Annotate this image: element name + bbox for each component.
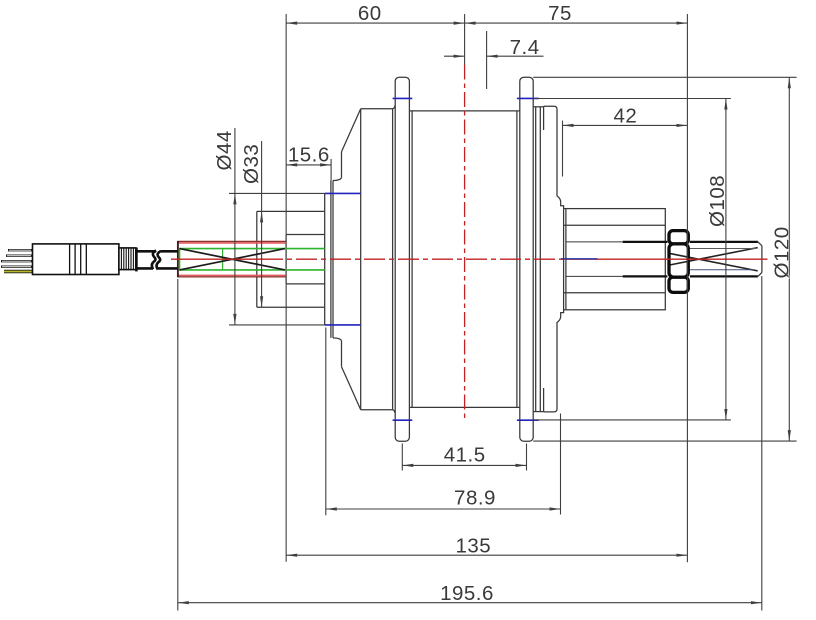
cable with break xyxy=(136,248,177,272)
connector nose ribs xyxy=(121,248,133,270)
dimension 7.4 xyxy=(444,31,544,89)
left cover disc edge xyxy=(361,106,395,413)
dimension 15.6 xyxy=(286,159,331,181)
horizontal centerline xyxy=(171,258,768,260)
axle boss D33 xyxy=(257,211,325,307)
centerline blue overlay xyxy=(561,258,598,260)
left axle thread highlight red xyxy=(178,241,286,277)
svg-text:60: 60 xyxy=(358,2,382,25)
svg-text:78.9: 78.9 xyxy=(454,487,496,510)
dimension 41.5 xyxy=(402,444,526,471)
left axle thread cross xyxy=(180,249,285,270)
right axle thread major lines xyxy=(623,242,758,277)
dimension D108 xyxy=(534,99,731,420)
dimension D44 xyxy=(229,128,325,325)
svg-text:75: 75 xyxy=(548,2,572,25)
dimension D33 xyxy=(261,141,263,307)
left axle thread minor green xyxy=(179,249,325,270)
svg-text:Ø120: Ø120 xyxy=(771,226,794,278)
connector nose xyxy=(119,248,136,270)
dimension 78.9 xyxy=(326,328,561,516)
svg-text:Ø44: Ø44 xyxy=(213,130,236,170)
vertical centerline xyxy=(464,65,466,421)
dimension 195.6 xyxy=(178,276,762,611)
dimension 135 xyxy=(286,554,687,556)
svg-text:135: 135 xyxy=(455,534,491,557)
right axle thread cross xyxy=(669,248,758,271)
svg-text:42: 42 xyxy=(613,105,637,128)
wire leads xyxy=(1,250,33,273)
right cover xyxy=(533,106,563,412)
axle nut fill xyxy=(667,229,690,294)
axle nut M12 xyxy=(669,231,688,293)
left spoke flange disc xyxy=(393,77,413,441)
left cover cone xyxy=(333,109,361,410)
connector body ribs xyxy=(70,244,87,275)
svg-text:Ø33: Ø33 xyxy=(240,144,263,184)
svg-text:195.6: 195.6 xyxy=(440,582,494,605)
freehub spline body xyxy=(564,209,666,310)
spoke hole circle blue ticks xyxy=(325,98,539,420)
axle end chamfer xyxy=(758,242,762,277)
left bearing boss ring lines xyxy=(325,181,333,338)
svg-text:7.4: 7.4 xyxy=(510,36,540,59)
dimension D120 xyxy=(533,77,796,441)
right axle thread minor lines xyxy=(689,249,756,270)
svg-text:41.5: 41.5 xyxy=(444,444,486,467)
dimension 60 xyxy=(286,14,464,562)
right spoke flange disc xyxy=(517,77,533,441)
axle step D17 xyxy=(286,235,325,284)
dimension 42 xyxy=(563,121,688,177)
svg-text:Ø108: Ø108 xyxy=(706,175,729,227)
cable connector body xyxy=(33,244,119,275)
svg-text:15.6: 15.6 xyxy=(288,144,330,167)
dimension 75 xyxy=(465,14,688,562)
rotor drum xyxy=(409,111,519,408)
